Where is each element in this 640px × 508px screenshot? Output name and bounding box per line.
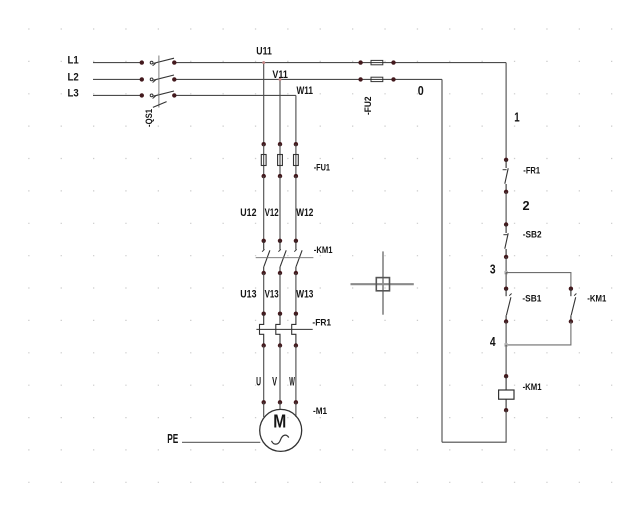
- svg-text:-SB1: -SB1: [522, 294, 541, 304]
- svg-text:-SB2: -SB2: [523, 229, 542, 239]
- svg-text:PE: PE: [167, 431, 178, 446]
- crosshair cursor: [351, 251, 414, 314]
- fuse FU2 (2-pole): [358, 60, 395, 115]
- branch wire (KM1 aux to node 4): [506, 322, 571, 345]
- svg-text:W: W: [289, 376, 295, 388]
- svg-text:-KM1: -KM1: [314, 245, 333, 255]
- wire L2: [68, 71, 443, 83]
- wire V12 segment: [279, 176, 281, 241]
- wire W13 segment: [295, 273, 297, 314]
- svg-text:-QS1: -QS1: [144, 109, 154, 127]
- fuse FU1: [261, 142, 330, 178]
- svg-text:-M1: -M1: [313, 406, 327, 416]
- wire V11: [272, 69, 288, 144]
- wire L3: [68, 87, 296, 99]
- wire 1 (control line): [506, 63, 520, 160]
- wire W segment: [295, 346, 297, 403]
- svg-text:V12: V12: [265, 207, 279, 219]
- wire U12 segment: [263, 176, 265, 241]
- svg-text:-FU2: -FU2: [363, 97, 373, 116]
- wire L1: [68, 55, 507, 67]
- wire U segment: [263, 346, 265, 403]
- wire segment 2: [506, 192, 530, 225]
- svg-text:W11: W11: [297, 85, 314, 97]
- disconnect switch QS1: [140, 56, 177, 128]
- svg-text:3: 3: [490, 263, 496, 277]
- contactor coil KM1: [499, 374, 542, 412]
- svg-text:-KM1: -KM1: [523, 382, 542, 392]
- wire V13 segment: [279, 273, 281, 314]
- wire W12 segment: [295, 176, 297, 241]
- svg-text:V11: V11: [272, 69, 288, 81]
- wire U11: [256, 45, 272, 144]
- svg-text:-FR1: -FR1: [523, 165, 540, 175]
- svg-text:U13: U13: [240, 289, 256, 301]
- svg-text:V13: V13: [265, 289, 279, 301]
- node 4: [490, 335, 508, 349]
- svg-text:W12: W12: [296, 207, 313, 219]
- svg-text:U11: U11: [256, 45, 272, 57]
- svg-text:L3: L3: [68, 87, 79, 99]
- svg-text:U: U: [256, 376, 261, 388]
- branch wire (node 3 to KM1 aux): [506, 273, 571, 289]
- svg-text:W13: W13: [296, 289, 313, 301]
- motor M1: [260, 400, 327, 451]
- svg-text:U12: U12: [240, 207, 256, 219]
- svg-text:4: 4: [490, 335, 496, 349]
- FR1 NC contact: [503, 158, 540, 194]
- svg-text:2: 2: [523, 199, 530, 213]
- node 3: [490, 263, 508, 277]
- thermal overload relay FR1: [256, 312, 331, 348]
- svg-text:L2: L2: [68, 71, 79, 83]
- svg-text:1: 1: [514, 110, 519, 124]
- wire coil to 0 rail: [442, 410, 506, 442]
- svg-text:-FR1: -FR1: [312, 318, 331, 328]
- wire 0 rail: [418, 79, 442, 442]
- wire SB1 to node 4: [505, 322, 507, 345]
- KM1 auxiliary NO contact: [569, 287, 607, 324]
- SB1 start button NO contact: [504, 287, 542, 324]
- svg-text:-FU1: -FU1: [314, 162, 330, 172]
- wire PE: [167, 431, 260, 446]
- svg-text:V: V: [272, 376, 277, 388]
- wire U13 segment: [263, 273, 265, 314]
- contactor KM1 main contacts: [256, 239, 333, 276]
- wire node3 to SB1: [505, 273, 507, 289]
- svg-text:-KM1: -KM1: [587, 294, 606, 304]
- svg-text:L1: L1: [68, 55, 79, 67]
- SB2 stop button NC contact: [503, 222, 541, 259]
- wire node 4 to coil: [505, 345, 507, 376]
- svg-text:M: M: [273, 411, 286, 431]
- wire to node 3: [505, 257, 507, 273]
- svg-text:0: 0: [418, 84, 424, 98]
- wire W11: [296, 85, 313, 144]
- wire V segment: [279, 346, 281, 403]
